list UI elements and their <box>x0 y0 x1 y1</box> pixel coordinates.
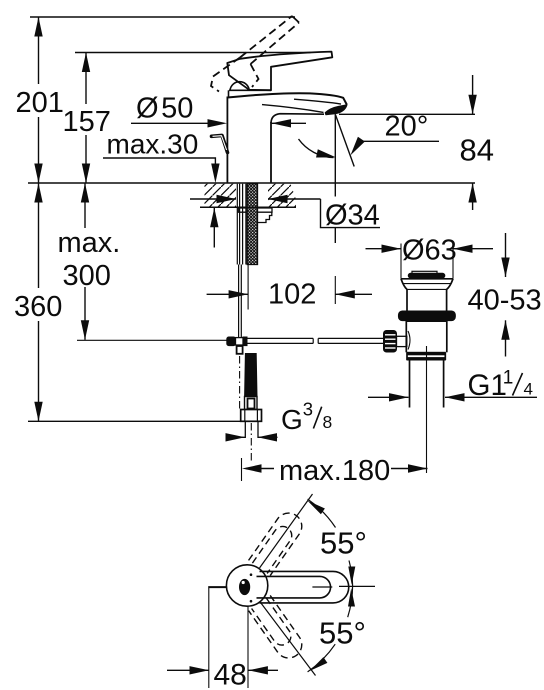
svg-text:max.180: max.180 <box>279 455 390 487</box>
svg-text:201: 201 <box>16 87 64 119</box>
svg-text:max.: max. <box>58 227 121 259</box>
svg-text:102: 102 <box>268 279 316 311</box>
svg-text:max.30: max.30 <box>107 129 199 160</box>
svg-text:Ø50: Ø50 <box>136 93 193 125</box>
svg-text:8: 8 <box>323 412 333 432</box>
svg-text:Ø34: Ø34 <box>325 200 380 232</box>
svg-text:48: 48 <box>214 659 247 690</box>
svg-text:157: 157 <box>63 106 111 138</box>
svg-text:4: 4 <box>524 380 533 399</box>
svg-text:360: 360 <box>14 291 62 323</box>
svg-text:G1: G1 <box>468 369 507 402</box>
svg-text:3: 3 <box>303 399 313 420</box>
svg-text:55°: 55° <box>320 526 367 561</box>
svg-text:G: G <box>281 404 303 435</box>
svg-text:20°: 20° <box>385 111 429 143</box>
svg-text:1: 1 <box>503 368 514 389</box>
svg-text:300: 300 <box>63 260 111 292</box>
svg-text:55°: 55° <box>319 616 366 651</box>
svg-text:40-53: 40-53 <box>468 285 542 317</box>
svg-text:Ø63: Ø63 <box>402 235 457 267</box>
svg-text:84: 84 <box>460 133 494 168</box>
